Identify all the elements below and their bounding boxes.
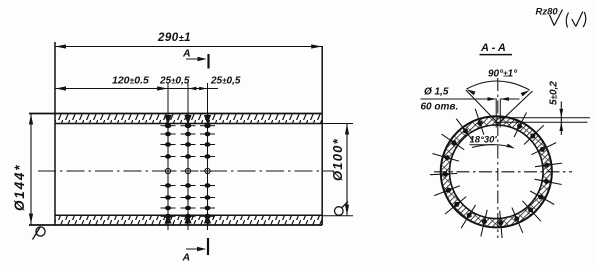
svg-text:A: A [182,48,191,60]
svg-text:Rz80: Rz80 [536,7,559,18]
section mark A top [182,48,209,69]
svg-text:90°±1°: 90°±1° [488,69,518,80]
drilled holes on ring [441,120,551,227]
hole row 3 [200,113,215,230]
tube inner top line [55,123,322,125]
dim 290±1 [55,32,322,49]
svg-text:25±0,5: 25±0,5 [210,76,241,87]
tube right end line [321,46,323,225]
top hole Ø1,5 [496,99,500,128]
tube top wall hatch [55,114,322,123]
svg-text:A: A [182,252,191,264]
tube outer bottom line [29,224,322,226]
svg-text:A - A: A - A [480,42,506,54]
hole row 1 [161,113,176,230]
dim Ø100* [322,124,353,216]
roughness symbol on Ø144 [33,227,46,240]
radial hole axes (60 otv.) [430,109,562,238]
dim 120±0,5 / 25±0,5 / 25±0,5 [55,75,241,115]
general roughness Rz80 [536,7,563,26]
angular dim arc 90°±1° [467,69,530,97]
tube outer top line [29,113,322,115]
hole row 2 [181,113,196,230]
svg-text:5±0,2: 5±0,2 [549,81,560,105]
angle 18°30' [470,135,515,149]
svg-text:290±1: 290±1 [157,32,191,44]
svg-text:Ø144*: Ø144* [12,164,27,211]
tube left end line [54,42,56,225]
(check) symbol [566,12,586,28]
tube axis centerline [38,170,334,172]
tube inner bottom line [55,214,322,216]
ring horizontal centerline [434,171,572,173]
roughness symbol on Ø100 [335,202,349,216]
svg-text:25±0,5: 25±0,5 [159,76,190,87]
svg-text:Ø 1,5: Ø 1,5 [424,87,449,98]
ring vertical centerline [497,78,499,238]
svg-text:120±0.5: 120±0.5 [112,75,149,87]
countersink 90° V lines [466,90,533,124]
section mark A bottom [182,238,209,264]
ring outer circle [441,116,552,227]
section A-A title [480,42,513,55]
ring inner circle [450,125,544,219]
svg-text:18°30': 18°30' [470,135,498,146]
ring hatch [435,111,559,235]
dim Ø144* [12,114,33,225]
svg-text:Ø100*: Ø100* [330,138,345,181]
leader Ø1,5 60 otv. [421,87,520,113]
tube bottom wall hatch [55,216,322,225]
dim 5±0,2 [495,81,590,135]
svg-text:60 отв.: 60 отв. [421,102,459,113]
